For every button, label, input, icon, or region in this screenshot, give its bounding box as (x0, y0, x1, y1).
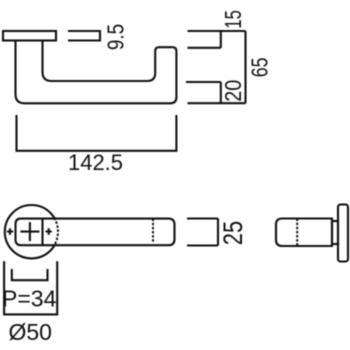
extension line lever top level (188, 47, 221, 49)
dimension line 25 (217, 219, 219, 246)
svg-text:Ø50: Ø50 (9, 319, 52, 345)
9.5 thickness bracket (68, 31, 100, 41)
dimension line 15 (220, 31, 222, 48)
svg-text:25: 25 (219, 221, 248, 245)
spindle cross (20, 222, 39, 241)
neck boss (end view) (332, 221, 338, 244)
lever bar (end view) (276, 219, 332, 247)
spindle plate divider (41, 219, 43, 246)
extension line rose top level (188, 30, 246, 32)
extension line grip top level (186, 81, 221, 83)
svg-text:65: 65 (247, 58, 273, 78)
svg-text:142.5: 142.5 (68, 150, 123, 175)
svg-text:15: 15 (221, 10, 246, 28)
svg-text:P=34: P=34 (2, 285, 57, 311)
lever bar (front view) (16, 219, 175, 246)
rose circle (front view) (5, 205, 58, 258)
extension line grip bottom level (188, 102, 246, 104)
svg-text:20: 20 (220, 80, 246, 102)
screw hole right (46, 228, 52, 234)
dimension line 65 (244, 31, 246, 103)
dotted break line (end view) (296, 220, 298, 246)
lever handle outline (side view) (16, 42, 177, 104)
hidden rose arc (dotted) (54, 219, 58, 246)
dimension 142.5 bracket (17, 115, 177, 151)
screw hole left (7, 228, 13, 234)
svg-text:9.5: 9.5 (103, 24, 129, 50)
P=34 bracket (12, 269, 48, 280)
dimension line 20 (220, 82, 222, 103)
rose plate (end view) (338, 205, 348, 262)
rose plate (side view) (3, 31, 56, 41)
dotted break line (front view) (152, 220, 154, 245)
extension line bar bottom (25 dim) (187, 244, 218, 246)
diameter 50 bracket (4, 261, 57, 314)
extension line bar top (25 dim) (187, 217, 218, 219)
